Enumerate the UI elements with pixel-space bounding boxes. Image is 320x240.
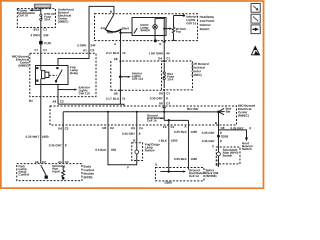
svg-text:(UBEC): (UBEC) (58, 20, 69, 24)
svg-text:F7: F7 (35, 48, 39, 52)
svg-text:1 DK GRN: 1 DK GRN (148, 51, 162, 55)
svg-text:2 ORN: 2 ORN (77, 43, 86, 47)
wire relay 86 coil feed (40, 52, 42, 66)
svg-text:0.35 GRY: 0.35 GRY (202, 131, 215, 135)
svg-text:2 ORN: 2 ORN (30, 33, 39, 37)
svg-text:D8: D8 (102, 126, 106, 130)
wire 0.35 BLK 1450 (174, 125, 197, 170)
svg-text:2 LT BLU: 2 LT BLU (106, 51, 119, 55)
svg-text:650: 650 (111, 148, 116, 152)
svg-text:E: E (155, 163, 157, 167)
svg-text:1680: 1680 (42, 135, 49, 139)
svg-text:(MBEC): (MBEC) (18, 64, 29, 68)
connector label D8 C2 (102, 126, 114, 130)
svg-text:D6: D6 (159, 101, 163, 105)
svg-text:Cell 12: Cell 12 (186, 21, 196, 25)
ground distribution reference (in MBEC) (147, 114, 164, 123)
svg-text:0.35 GRY: 0.35 GRY (150, 96, 163, 100)
wire fog switch feed 0.35 GRY 8 (122, 112, 143, 143)
svg-text:C1: C1 (166, 56, 170, 60)
svg-text:Cell 14: Cell 14 (189, 174, 199, 178)
svg-text:0.35 GRY: 0.35 GRY (49, 143, 62, 147)
svg-text:Switch: Switch (223, 154, 233, 158)
label Left Bussed Electrical Center (LBEC) (192, 62, 209, 77)
dimmer pot resistor (163, 14, 197, 40)
connector label A1 C2 (83, 48, 95, 52)
splice S208 (217, 134, 228, 138)
svg-text:C2: C2 (90, 48, 94, 52)
svg-text:F2: F2 (163, 125, 167, 129)
label Body Control Module (BCM) (84, 164, 95, 179)
terminal dot E on box edge (154, 39, 162, 46)
Headlamp And Panel Dimmer Switch box (95, 14, 198, 41)
svg-text:A8: A8 (52, 100, 56, 104)
label Power Distribution Cell 10 (18, 9, 35, 18)
relay Fog Lamp Relay (36, 65, 69, 85)
svg-text:D9: D9 (131, 126, 135, 130)
BCM park lamp relay control (19, 164, 48, 178)
Underhood Bussed Electrical Center box (UBEC) (17, 9, 55, 28)
ignition-style switch contacts (Acc Run Start) (101, 14, 133, 42)
fuse Run (in LBEC) (163, 63, 174, 88)
svg-text:Switch: Switch (145, 148, 155, 152)
label Headlamp And Panel Dimmer Switch (200, 15, 215, 31)
svg-text:D8: D8 (114, 92, 118, 96)
svg-text:C4: C4 (139, 126, 143, 130)
svg-text:10 A: 10 A (167, 77, 174, 81)
wire ignition B feed (2 ORN) (58, 6, 114, 66)
orange page frame (1, 1, 264, 188)
wire 1 BLK 1650 to G200 (155, 120, 177, 171)
MID Bussed Electrical Center band box (right MBEC) (50, 106, 237, 125)
wire relay 87 to A8 (57, 85, 59, 97)
svg-text:30 A: 30 A (44, 17, 51, 21)
terminal B and connector C8 (215, 121, 225, 130)
label Underhood Bussed Electrical Center (UBEC) (58, 8, 74, 24)
inline connector dashed box (111, 61, 162, 90)
svg-text:0.35 WHT: 0.35 WHT (26, 135, 40, 139)
svg-text:Control: Control (19, 172, 30, 176)
label Bus Bar (187, 107, 199, 111)
svg-text:Input: Input (52, 169, 59, 173)
viewer icon zoom diagonal arrow (251, 3, 260, 12)
svg-text:C2: C2 (65, 126, 69, 130)
Fog/Cargo Lamp Switch box (132, 143, 143, 161)
svg-text:F: F (127, 165, 129, 169)
svg-text:B4: B4 (29, 99, 33, 103)
wire A8 branch vertical (58, 97, 124, 170)
wire 0.5 BLK 650 BCM to fog switch (95, 112, 136, 170)
splice P100 (39, 41, 51, 45)
svg-text:1 BLK: 1 BLK (158, 139, 168, 143)
label HTR I/P Fuse 30 A (44, 12, 55, 21)
svg-text:D4: D4 (58, 126, 62, 130)
junction dot and cell arrow Interior Lights (119, 71, 143, 80)
connector D8 circle (upper) (114, 57, 162, 62)
connector label B12 C1 (34, 28, 48, 32)
wire 2 LT BLU ignition output (119, 42, 121, 104)
svg-text:C1: C1 (166, 91, 170, 95)
wire 1 DK GRN lower with labels (148, 51, 170, 60)
connector label A5 C2 (58, 160, 69, 164)
svg-text:(MBEC): (MBEC) (238, 114, 249, 118)
svg-text:Switch: Switch (242, 147, 252, 151)
svg-text:74: 74 (122, 51, 126, 55)
Body Control Module box (BCM) (17, 164, 82, 181)
svg-text:(BCM): (BCM) (84, 175, 93, 179)
svg-text:74: 74 (122, 97, 126, 101)
connector label D6 C1 (159, 91, 170, 95)
svg-text:Bus Bar: Bus Bar (187, 107, 199, 111)
svg-text:(SP206): (SP206) (205, 174, 216, 178)
svg-text:1450: 1450 (190, 130, 197, 134)
svg-text:2 LT BLU: 2 LT BLU (106, 97, 119, 101)
svg-text:Start: Start (122, 26, 129, 30)
connector label F7 C1 (35, 48, 48, 52)
BCM dimming run input resistor (52, 164, 65, 180)
splice pack box (155, 168, 206, 181)
wire 0.35 GRY 8 to MBEC (150, 92, 171, 112)
svg-text:E: E (159, 42, 161, 46)
connector label A8 C2 (52, 100, 64, 104)
MID Bussed Electrical Center box (left MBEC) (30, 53, 96, 96)
svg-text:Bar: Bar (226, 109, 232, 113)
svg-text:P100: P100 (44, 41, 51, 45)
Selectable Ride Switch box (216, 147, 240, 164)
svg-text:B12: B12 (34, 28, 40, 32)
ground bus line in MBEC (164, 112, 188, 125)
svg-text:Switch: Switch (140, 28, 150, 32)
bus bar fan-out symbol (217, 107, 231, 115)
svg-text:0.35 BLK: 0.35 BLK (174, 157, 188, 161)
svg-text:(LBEC): (LBEC) (192, 73, 202, 77)
connector label D4 C2 under MBEC (58, 126, 69, 130)
svg-text:Cell 14: Cell 14 (147, 119, 157, 123)
cell reference arrow Exterior Lights (58, 85, 91, 95)
svg-text:D4: D4 (158, 56, 162, 60)
connector label B4 (29, 99, 33, 103)
svg-text:Cell 10: Cell 10 (18, 13, 28, 17)
svg-text:Relay: Relay (70, 71, 78, 75)
ground G200 (165, 181, 173, 185)
svg-text:Pot: Pot (176, 30, 181, 34)
svg-text:Acc: Acc (101, 26, 107, 30)
svg-text:A1: A1 (83, 48, 87, 52)
svg-text:0.35 BLK: 0.35 BLK (174, 130, 188, 134)
svg-text:C2: C2 (60, 100, 64, 104)
bus bar line (63, 111, 218, 113)
svg-text:240: 240 (90, 43, 95, 47)
banner Hot At All Times (34, 4, 51, 8)
svg-text:S208: S208 (221, 134, 228, 138)
svg-text:44: 44 (166, 51, 170, 55)
label Splice Pack 206 (SP206) (205, 168, 218, 178)
svg-text:C3: C3 (166, 101, 170, 105)
svg-text:0.35 GRY: 0.35 GRY (202, 139, 215, 143)
wire label 2 ORN 240 (right) (77, 43, 96, 47)
wire 1 DK GRN top run (155, 18, 166, 61)
svg-text:C2: C2 (110, 126, 114, 130)
label Fog/Cargo Lamp Switch (145, 142, 160, 152)
wire label 2 LT BLU 74 (lower) (106, 97, 126, 101)
wire UBEC feed (2 ORN) vertical (40, 8, 42, 52)
viewer icon pan-right arrow (251, 25, 260, 34)
svg-text:Cell 114: Cell 114 (132, 77, 144, 81)
svg-text:1450: 1450 (190, 157, 197, 161)
label MID Bussed Electrical Center (MBEC) right (238, 104, 255, 118)
terminal A label (114, 42, 117, 46)
connector label A6 C2 (35, 160, 46, 164)
branch wire to Roof Beacon Switch (218, 126, 253, 151)
lamp symbol in dimmer switch (153, 18, 158, 40)
Left Bussed Electrical Center box (LBEC) (162, 60, 193, 91)
wire relay 85 to B4 (40, 85, 42, 97)
nav triangle icon (251, 46, 259, 55)
wire B4 branch vertical (40, 97, 42, 164)
wire label 0.35 WHT 1680 (26, 135, 49, 139)
svg-text:0.5 BLK: 0.5 BLK (95, 148, 107, 152)
wire label 0.35 GRY 8 (right column) (202, 131, 222, 143)
svg-text:0.35 GRY: 0.35 GRY (231, 126, 244, 130)
svg-text:1650: 1650 (171, 139, 178, 143)
svg-text:C1: C1 (43, 28, 47, 32)
wire 0.35 GRY right column (217, 112, 219, 167)
wire label 0.35 GRY 8 (left) (49, 143, 67, 147)
wire label 2 ORN 240 (30, 33, 48, 37)
svg-text:240: 240 (43, 33, 48, 37)
dome lamp switch sub-box (132, 18, 166, 36)
connector D8 circle (lower) (114, 89, 122, 95)
terminal C (212, 144, 215, 148)
svg-text:D8: D8 (114, 57, 118, 61)
terminal B of dimmer switch (110, 10, 113, 14)
svg-text:0.35 GRY: 0.35 GRY (122, 132, 135, 136)
viewer icon diagonal line (251, 14, 260, 23)
label MID Bussed Electrical Center (MBEC) left (12, 55, 30, 68)
wire label 2 LT BLU 74 (upper) (106, 51, 126, 55)
cell reference arrow Power Distribution (29, 9, 41, 11)
terminal B below selectable ride switch (216, 163, 219, 167)
svg-text:Switch: Switch (200, 27, 210, 31)
fuse HTR I/P (in UBEC) (40, 14, 42, 20)
svg-text:D6: D6 (159, 91, 163, 95)
svg-text:C1: C1 (43, 48, 47, 52)
label Fog Lamp Relay (70, 65, 78, 75)
svg-text:C1: C1 (171, 125, 175, 129)
svg-text:G200: G200 (165, 181, 173, 185)
svg-text:Hot At All Times: Hot At All Times (36, 5, 51, 8)
svg-text:Cell 110: Cell 110 (79, 91, 91, 95)
